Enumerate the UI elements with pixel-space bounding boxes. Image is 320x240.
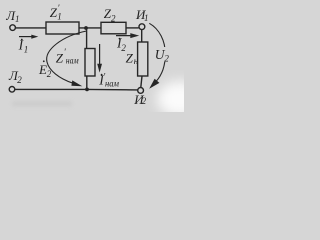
svg-text:Z: Z [56, 50, 64, 65]
wire Л2 to node B [15, 88, 87, 90]
wire Zн down to И2 [141, 76, 142, 87]
svg-text:2: 2 [17, 75, 22, 85]
svg-text:1: 1 [24, 45, 29, 55]
wire Z'1 to node A [79, 27, 101, 29]
node B junction [85, 88, 89, 92]
wire Z2 to И1 [126, 27, 139, 29]
node A junction [84, 26, 88, 30]
resistor Zн (load) [138, 42, 148, 76]
resistor Z'нам [85, 49, 95, 77]
wire И1 down to Zн [141, 30, 143, 42]
svg-text:1: 1 [15, 14, 20, 24]
svg-text:1: 1 [144, 13, 149, 23]
resistor Z2 [101, 22, 126, 34]
background bleed-through smudge bottom-left [12, 102, 72, 107]
svg-text:нам: нам [66, 57, 79, 67]
svg-text:2: 2 [111, 13, 116, 23]
wire Л1 to Z'1 [16, 27, 46, 29]
current arrow I'нам [97, 44, 102, 73]
wire node A down to Z'нам [86, 28, 88, 49]
terminal Л2 [9, 87, 15, 93]
resistor Z'1 [46, 22, 79, 34]
terminal И1 [139, 24, 145, 30]
terminal Л1 [10, 25, 16, 31]
wire node B to И2 [87, 88, 138, 91]
svg-text:2: 2 [121, 43, 126, 53]
current arrow I1 [19, 35, 38, 39]
svg-text:2: 2 [47, 69, 52, 79]
background light patch bottom-right [157, 81, 203, 117]
svg-text:Z: Z [126, 51, 134, 66]
EMF arrow E2 (curved, node A down to node B) [47, 31, 87, 86]
svg-text:1: 1 [57, 12, 62, 22]
voltage arrow U2 (curved, И1 down to И2) [149, 23, 169, 89]
svg-text:н: н [134, 57, 139, 67]
wire Z'нам down to node B [86, 76, 88, 89]
svg-text:E: E [38, 62, 47, 77]
current arrow I2 [116, 33, 139, 38]
svg-text:нам: нам [105, 79, 119, 89]
svg-text:2: 2 [164, 53, 169, 63]
svg-text:2: 2 [142, 96, 147, 106]
terminal И2 [138, 88, 144, 94]
